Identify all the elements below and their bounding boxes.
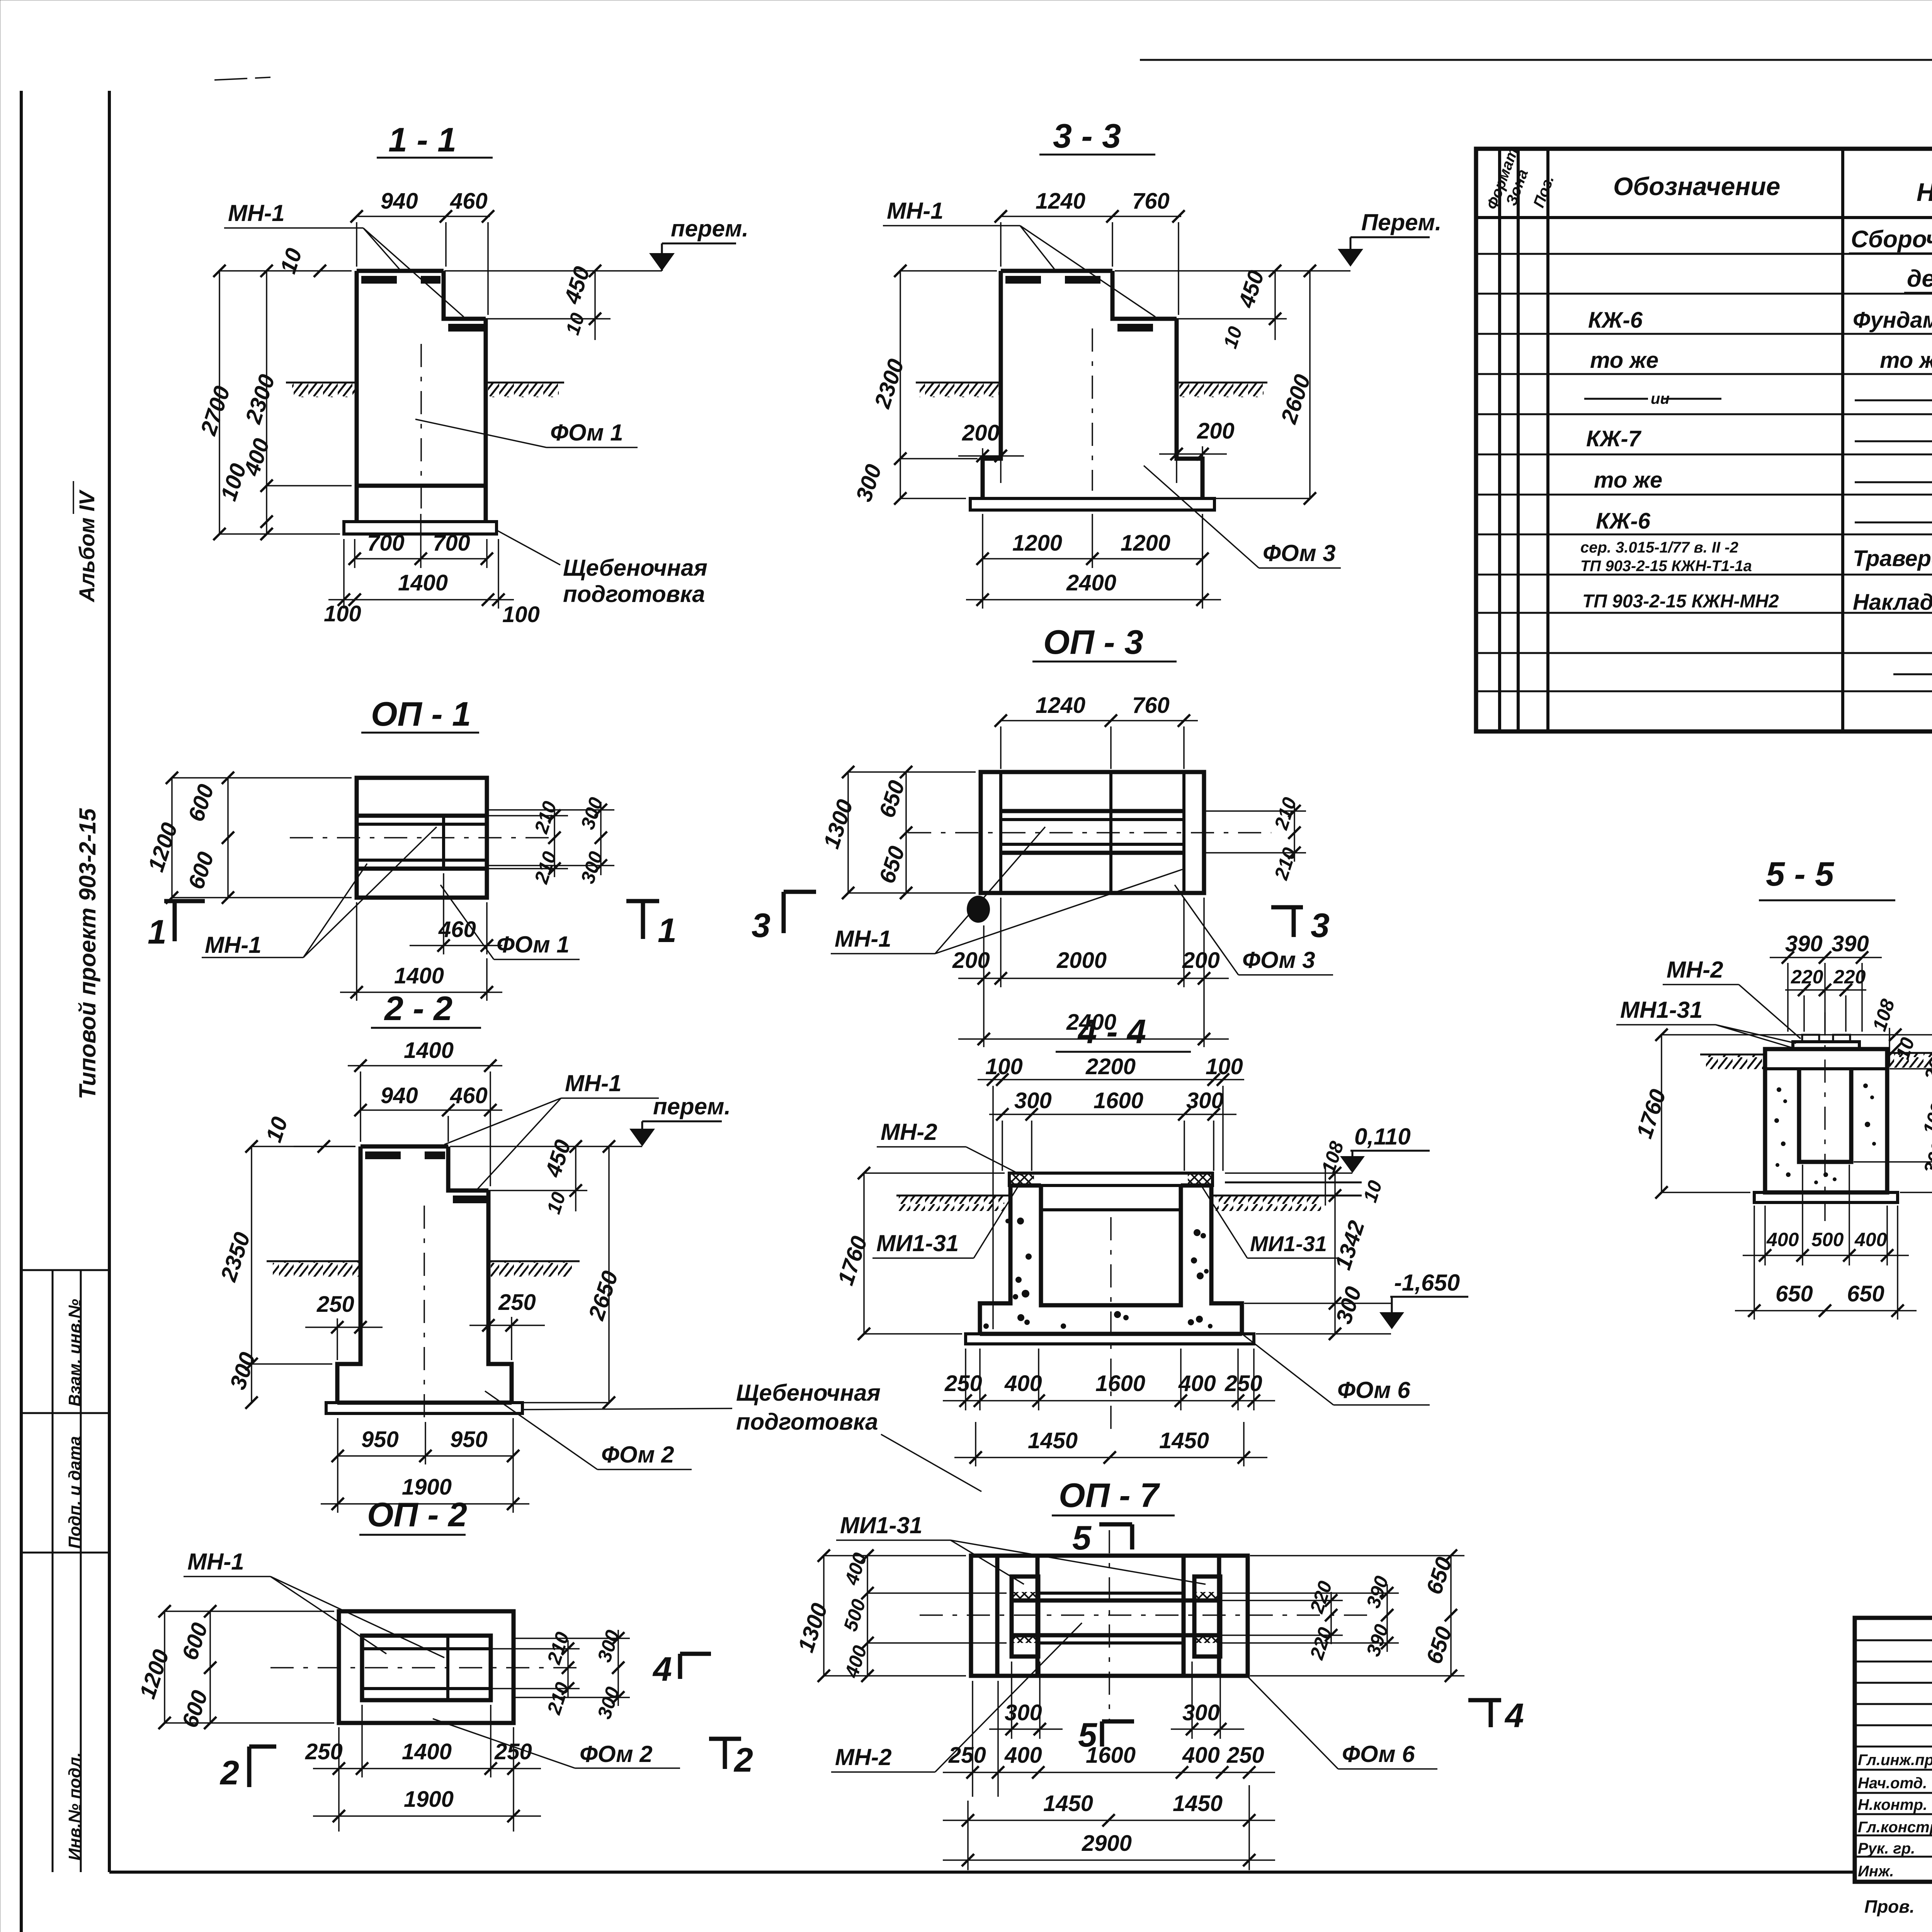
rubble plate bbox=[1754, 1192, 1898, 1202]
svg-text:Обозначение: Обозначение bbox=[1613, 172, 1780, 201]
svg-text:ОП - 7: ОП - 7 bbox=[1059, 1476, 1160, 1514]
U cavity bbox=[1799, 1069, 1851, 1162]
svg-text:1760: 1760 bbox=[1632, 1086, 1671, 1141]
sheet inner left border bbox=[108, 91, 111, 1872]
svg-text:1200: 1200 bbox=[143, 820, 183, 875]
ground left bbox=[267, 1260, 361, 1262]
svg-text:МН-2: МН-2 bbox=[835, 1744, 892, 1770]
svg-text:300: 300 bbox=[577, 795, 607, 832]
svg-text:100: 100 bbox=[985, 1054, 1023, 1079]
svg-text:950: 950 bbox=[361, 1427, 399, 1452]
svg-text:1450: 1450 bbox=[1173, 1791, 1223, 1816]
svg-text:300: 300 bbox=[1919, 1139, 1932, 1177]
svg-text:300: 300 bbox=[577, 849, 607, 886]
top plates bbox=[1802, 1035, 1819, 1042]
rubble plate bbox=[326, 1403, 522, 1413]
svg-text:детали: детали bbox=[1907, 265, 1932, 292]
svg-text:подготовка: подготовка bbox=[736, 1409, 878, 1435]
centerline bbox=[270, 1667, 580, 1668]
svg-text:400: 400 bbox=[1004, 1371, 1042, 1396]
svg-text:МН-2: МН-2 bbox=[881, 1119, 937, 1145]
svg-text:300: 300 bbox=[1182, 1700, 1220, 1725]
svg-text:390: 390 bbox=[1362, 1573, 1393, 1611]
dim 200/2000/200 bbox=[983, 925, 985, 1047]
MN-1 plates bbox=[361, 1145, 448, 1149]
bottom chain 1450/1450 bbox=[967, 1801, 969, 1870]
rubble plate bbox=[966, 1334, 1254, 1344]
svg-text:Инж.: Инж. bbox=[1858, 1863, 1894, 1880]
dim 450/10 right bbox=[488, 1190, 587, 1191]
pads MI1-31 bbox=[1012, 1577, 1038, 1656]
svg-text:ФОм 3: ФОм 3 bbox=[1242, 947, 1315, 973]
svg-text:210: 210 bbox=[543, 1629, 573, 1667]
svg-text:КЖ-6: КЖ-6 bbox=[1596, 509, 1651, 534]
left dim chain 2300/400/100 bbox=[266, 271, 267, 534]
svg-text:МН-1: МН-1 bbox=[835, 926, 891, 952]
svg-text:1 - 1: 1 - 1 bbox=[388, 121, 456, 159]
left dim chain 1200 bbox=[171, 778, 173, 898]
svg-text:400: 400 bbox=[1004, 1743, 1042, 1768]
right dim chain 300/300 bbox=[487, 809, 614, 811]
svg-text:460: 460 bbox=[450, 189, 488, 214]
svg-text:760: 760 bbox=[1132, 189, 1170, 214]
svg-text:200: 200 bbox=[1182, 948, 1220, 973]
svg-text:1450: 1450 bbox=[1028, 1428, 1078, 1453]
bottom chain 650/650 bbox=[1753, 1206, 1755, 1320]
left dim chain 650/650 bbox=[905, 772, 907, 893]
dim 2400 bbox=[958, 1038, 1229, 1040]
center vertical bbox=[1109, 772, 1112, 893]
svg-text:2: 2 bbox=[733, 1741, 753, 1779]
svg-text:210: 210 bbox=[530, 849, 561, 887]
svg-text:Накладной эл-т МН-2: Накладной эл-т МН-2 bbox=[1853, 590, 1932, 615]
svg-text:500: 500 bbox=[1811, 1229, 1844, 1250]
svg-text:ОП - 3: ОП - 3 bbox=[1043, 623, 1143, 661]
centerline bbox=[290, 837, 553, 838]
left chain 1300 bbox=[823, 1556, 825, 1676]
svg-text:Фундамент: Фундамент bbox=[1853, 308, 1932, 333]
level line bbox=[1662, 1034, 1932, 1036]
svg-text:МН-1: МН-1 bbox=[205, 932, 262, 958]
FIGOP7 bbox=[652, 1476, 1524, 1870]
FIG44 bbox=[833, 1012, 1468, 1466]
ground line right bbox=[486, 382, 564, 384]
svg-text:400: 400 bbox=[1182, 1743, 1220, 1768]
svg-text:1092: 1092 bbox=[1918, 1090, 1932, 1137]
bottom inner border bbox=[109, 1871, 1855, 1874]
svg-text:1: 1 bbox=[658, 911, 677, 949]
svg-text:600: 600 bbox=[177, 1687, 213, 1731]
bottom chain 250/400/1600/400/250 bbox=[965, 1349, 966, 1410]
inner verticals bbox=[999, 772, 1002, 893]
svg-text:то же: то же bbox=[1594, 468, 1662, 493]
svg-text:210: 210 bbox=[543, 1680, 573, 1718]
svg-text:2700: 2700 bbox=[196, 383, 235, 439]
spec table grid bbox=[1476, 149, 1932, 731]
svg-text:1400: 1400 bbox=[404, 1038, 454, 1063]
svg-text:300: 300 bbox=[593, 1684, 624, 1722]
svg-text:2: 2 bbox=[219, 1753, 239, 1792]
svg-text:3 - 3: 3 - 3 bbox=[1053, 117, 1121, 155]
svg-text:Пров.: Пров. bbox=[1864, 1896, 1915, 1917]
ground right bbox=[1211, 1195, 1362, 1197]
rubble slab bbox=[344, 522, 497, 534]
inner line 400 bbox=[357, 484, 486, 488]
ground line right bbox=[1177, 382, 1267, 384]
right chain 2650 bbox=[608, 1146, 610, 1403]
right dim chain 2600 bbox=[1309, 271, 1311, 498]
left dim chain 600/600 bbox=[227, 778, 229, 898]
svg-text:10: 10 bbox=[261, 1114, 293, 1145]
stray dashes lower rows bbox=[1893, 673, 1932, 675]
left chain 1760 bbox=[863, 1173, 865, 1334]
svg-text:1900: 1900 bbox=[404, 1787, 454, 1812]
ink blob bbox=[967, 896, 990, 923]
right chain 300/300 bbox=[514, 1638, 630, 1639]
ground line left bbox=[286, 382, 357, 384]
svg-text:250: 250 bbox=[498, 1290, 536, 1315]
svg-text:400: 400 bbox=[840, 1643, 871, 1681]
left chain 1760 bbox=[1661, 1035, 1662, 1192]
svg-text:МН-1: МН-1 bbox=[565, 1070, 622, 1096]
ground left bbox=[1700, 1054, 1765, 1056]
svg-text:сер. 3.015-1/77 в. II -2: сер. 3.015-1/77 в. II -2 bbox=[1580, 539, 1738, 556]
MN-1 beam strips bbox=[357, 814, 487, 818]
svg-text:1450: 1450 bbox=[1159, 1428, 1209, 1453]
svg-text:Ноименование: Ноименование bbox=[1917, 178, 1932, 206]
svg-text:450: 450 bbox=[1233, 267, 1269, 311]
svg-text:Н.контр.: Н.контр. bbox=[1858, 1796, 1927, 1813]
section mark 3 left bbox=[782, 892, 786, 933]
bottom dim 950/950 bbox=[337, 1418, 338, 1513]
FOm2 outline bbox=[337, 1146, 512, 1403]
left dim chain 2300/300 bbox=[900, 271, 901, 498]
svg-text:600: 600 bbox=[177, 1620, 213, 1663]
svg-text:ии: ии bbox=[1651, 390, 1670, 407]
svg-text:МН-2: МН-2 bbox=[1667, 957, 1723, 983]
svg-text:Траверса: Траверса bbox=[1853, 546, 1932, 571]
svg-text:то же: то же bbox=[1590, 348, 1658, 373]
svg-text:Нач.отд.: Нач.отд. bbox=[1858, 1775, 1927, 1792]
svg-text:-1,650: -1,650 bbox=[1394, 1270, 1460, 1296]
svg-text:390: 390 bbox=[1362, 1622, 1393, 1659]
svg-text:250: 250 bbox=[1226, 1743, 1264, 1768]
ground left bbox=[896, 1195, 1010, 1197]
svg-text:1450: 1450 bbox=[1043, 1791, 1093, 1816]
base slab bbox=[983, 486, 1202, 498]
rubble plate bbox=[970, 498, 1214, 510]
svg-text:1: 1 bbox=[148, 913, 167, 951]
section mark 3 right bbox=[1271, 905, 1303, 910]
svg-text:ФОм 1: ФОм 1 bbox=[497, 932, 570, 957]
top dim 1240/760 bbox=[1001, 216, 1181, 217]
svg-text:220: 220 bbox=[1833, 966, 1866, 988]
svg-text:108: 108 bbox=[1868, 997, 1899, 1034]
FIG33 bbox=[851, 117, 1442, 609]
MN-1 plate top right bbox=[448, 324, 485, 332]
right chain 210/210 bbox=[491, 1648, 580, 1650]
inner vertical 940 split bbox=[446, 1636, 449, 1700]
FIGOP3 bbox=[752, 623, 1333, 1047]
beam MN-2 edges bbox=[1038, 1592, 1184, 1595]
svg-text:460: 460 bbox=[438, 917, 476, 942]
svg-text:940: 940 bbox=[381, 189, 418, 214]
svg-text:650: 650 bbox=[874, 843, 910, 886]
section mark 1 right bbox=[626, 899, 659, 903]
svg-text:ОП - 2: ОП - 2 bbox=[367, 1495, 467, 1534]
MN-2 top plate bbox=[1009, 1173, 1213, 1185]
svg-text:400: 400 bbox=[1766, 1229, 1799, 1250]
svg-text:10: 10 bbox=[1219, 324, 1247, 351]
svg-text:Типовой проект 903-2-15: Типовой проект 903-2-15 bbox=[75, 808, 100, 1099]
svg-text:4: 4 bbox=[1504, 1696, 1524, 1735]
TABLE bbox=[1476, 145, 1932, 731]
svg-text:210: 210 bbox=[530, 799, 561, 837]
svg-text:ФОм 6: ФОм 6 bbox=[1337, 1377, 1410, 1403]
svg-text:300: 300 bbox=[1014, 1088, 1052, 1113]
MI1-31 pad right bbox=[1188, 1174, 1212, 1185]
right chain 1342/300 bbox=[1334, 1173, 1336, 1334]
svg-text:0,110: 0,110 bbox=[1354, 1124, 1411, 1150]
ground right bbox=[488, 1260, 580, 1262]
svg-text:1400: 1400 bbox=[402, 1739, 452, 1764]
centerlines bbox=[920, 1614, 1376, 1616]
svg-text:2300: 2300 bbox=[869, 356, 909, 412]
left chain 600/600 bbox=[209, 1611, 211, 1723]
svg-text:1200: 1200 bbox=[135, 1646, 174, 1702]
foundation FOm1 outline bbox=[357, 271, 486, 522]
svg-text:10: 10 bbox=[1359, 1178, 1386, 1205]
svg-text:3: 3 bbox=[752, 906, 770, 944]
centerline bbox=[1110, 1217, 1112, 1430]
svg-text:1342: 1342 bbox=[1330, 1218, 1370, 1273]
svg-text:ОП - 1: ОП - 1 bbox=[371, 695, 471, 733]
ground line left bbox=[916, 382, 1001, 384]
svg-text:100: 100 bbox=[1206, 1054, 1243, 1079]
svg-text:1240: 1240 bbox=[1036, 693, 1085, 718]
svg-text:250: 250 bbox=[944, 1371, 982, 1396]
svg-text:100: 100 bbox=[324, 601, 361, 626]
svg-text:460: 460 bbox=[450, 1083, 488, 1108]
MN-1 plate top left bbox=[357, 269, 444, 273]
svg-text:2650: 2650 bbox=[583, 1268, 623, 1323]
svg-text:Инв.№ подл.: Инв.№ подл. bbox=[65, 1752, 84, 1861]
svg-text:1240: 1240 bbox=[1036, 189, 1085, 214]
inner rect bbox=[362, 1636, 491, 1700]
svg-text:210: 210 bbox=[1270, 845, 1301, 883]
svg-text:Поз.: Поз. bbox=[1530, 173, 1557, 210]
svg-text:1600: 1600 bbox=[1094, 1088, 1143, 1113]
svg-text:Перем.: Перем. bbox=[1361, 209, 1442, 235]
FIG55 bbox=[1616, 855, 1932, 1320]
svg-text:1400: 1400 bbox=[398, 570, 448, 595]
bottom dim 100/1400/100 bbox=[343, 539, 345, 609]
FOm2 plan outer bbox=[339, 1611, 514, 1723]
svg-text:ТП 903-2-15 КЖН-МН2: ТП 903-2-15 КЖН-МН2 bbox=[1582, 591, 1779, 612]
svg-text:МН-1: МН-1 bbox=[187, 1549, 244, 1575]
svg-text:500: 500 bbox=[839, 1597, 870, 1634]
svg-text:210: 210 bbox=[1270, 795, 1301, 833]
svg-text:ТП 903-2-15 КЖН-Т1-1а: ТП 903-2-15 КЖН-Т1-1а bbox=[1580, 558, 1752, 575]
svg-text:2200: 2200 bbox=[1085, 1054, 1136, 1079]
svg-text:250: 250 bbox=[948, 1743, 986, 1768]
title block frame bbox=[1855, 1618, 1932, 1882]
svg-text:950: 950 bbox=[450, 1427, 488, 1452]
svg-text:МИ1-31: МИ1-31 bbox=[876, 1230, 959, 1256]
svg-text:перем.: перем. bbox=[671, 216, 748, 241]
svg-text:200: 200 bbox=[952, 948, 990, 973]
svg-text:450: 450 bbox=[559, 264, 595, 307]
svg-text:3: 3 bbox=[1311, 906, 1330, 944]
dim 300 below pads bbox=[1011, 1662, 1012, 1739]
bottom dim 700/700 bbox=[354, 539, 355, 568]
right dim chain 210/210 bbox=[487, 815, 568, 816]
svg-text:450: 450 bbox=[540, 1137, 576, 1180]
svg-text:2 - 2: 2 - 2 bbox=[384, 989, 452, 1027]
centerline bbox=[1824, 1012, 1826, 1221]
foundation FOm3 outline bbox=[983, 271, 1202, 486]
svg-text:10: 10 bbox=[276, 245, 307, 277]
svg-text:2300: 2300 bbox=[240, 371, 280, 427]
svg-text:10: 10 bbox=[561, 310, 589, 337]
svg-text:700: 700 bbox=[367, 531, 405, 556]
svg-text:2400: 2400 bbox=[1066, 570, 1116, 595]
margin bottom table bbox=[21, 1269, 109, 1271]
bottom dim 2400 bbox=[966, 599, 1221, 600]
left dim chain 2700 bbox=[219, 271, 220, 534]
svg-text:1600: 1600 bbox=[1095, 1371, 1145, 1396]
svg-text:1760: 1760 bbox=[833, 1233, 872, 1288]
FOm4 block outline bbox=[1765, 1049, 1887, 1192]
inner verticals bbox=[995, 1556, 1000, 1676]
section mark 2 right bbox=[709, 1737, 741, 1741]
centerline bbox=[423, 1206, 425, 1422]
bottom dim 1900 bbox=[313, 1815, 541, 1817]
bottom dim 1900 bbox=[321, 1503, 529, 1505]
svg-text:Альбом IV: Альбом IV bbox=[75, 489, 99, 603]
svg-text:1300: 1300 bbox=[819, 796, 858, 852]
row: ditto FOm3 bbox=[1584, 398, 1648, 400]
svg-text:Щебеночная: Щебеночная bbox=[563, 555, 707, 581]
dim 450 right bbox=[486, 318, 611, 320]
FIG11 bbox=[196, 121, 748, 627]
svg-text:400: 400 bbox=[1178, 1371, 1216, 1396]
right chain 220/220 bbox=[1221, 1600, 1343, 1601]
section mark 4 left bbox=[678, 1654, 682, 1679]
FOm3 plan outline bbox=[981, 772, 1204, 893]
svg-text:700: 700 bbox=[433, 531, 470, 556]
svg-text:300: 300 bbox=[1005, 1700, 1042, 1725]
FIGOP1 bbox=[143, 695, 677, 1001]
svg-text:5: 5 bbox=[1072, 1519, 1092, 1557]
centerline bbox=[1092, 328, 1093, 491]
svg-text:МН-1: МН-1 bbox=[887, 198, 944, 224]
svg-text:2000: 2000 bbox=[1056, 948, 1107, 973]
top band bbox=[1765, 1067, 1887, 1070]
right chain 650/650 bbox=[1250, 1555, 1464, 1556]
svg-text:300: 300 bbox=[1331, 1284, 1367, 1327]
left chain 400/500/400 bbox=[867, 1556, 868, 1676]
MN-1 plate top left bbox=[1001, 269, 1112, 273]
svg-text:МН-1: МН-1 bbox=[228, 200, 285, 226]
svg-text:КЖ-7: КЖ-7 bbox=[1586, 426, 1642, 451]
svg-text:МН1-31: МН1-31 bbox=[1620, 997, 1702, 1023]
svg-text:то же: то же bbox=[1880, 348, 1932, 373]
svg-text:650: 650 bbox=[1776, 1281, 1813, 1306]
svg-text:650: 650 bbox=[874, 777, 910, 821]
svg-text:1200: 1200 bbox=[1012, 531, 1062, 556]
svg-text:ФОм 6: ФОм 6 bbox=[1342, 1741, 1415, 1767]
svg-text:108: 108 bbox=[1317, 1139, 1348, 1176]
svg-text:Сборочные единицы и: Сборочные единицы и bbox=[1851, 226, 1932, 253]
left chain 1200 bbox=[164, 1611, 165, 1723]
svg-text:ФОм 2: ФОм 2 bbox=[601, 1442, 674, 1468]
FOm6 plan outer bbox=[971, 1556, 1248, 1676]
ground right bbox=[1887, 1052, 1932, 1054]
inner vertical 940 split bbox=[442, 816, 445, 869]
svg-text:Гл.констр: Гл.констр bbox=[1858, 1819, 1932, 1836]
bottom chain 400/500/400 bbox=[1764, 1206, 1766, 1265]
FIGOP2 bbox=[135, 1495, 753, 1832]
svg-text:КЖ-6: КЖ-6 bbox=[1588, 308, 1643, 333]
MN-1 plate top right bbox=[1117, 324, 1175, 332]
svg-text:400: 400 bbox=[1854, 1229, 1887, 1250]
column centerline bbox=[420, 344, 422, 514]
svg-text:ФОм 2: ФОм 2 bbox=[580, 1741, 653, 1767]
svg-text:10: 10 bbox=[543, 1189, 570, 1216]
svg-text:100: 100 bbox=[502, 602, 540, 627]
svg-text:4: 4 bbox=[652, 1650, 672, 1688]
signature grid horizontals bbox=[1855, 1639, 1932, 1641]
left dim chain 1300 bbox=[847, 772, 849, 893]
svg-text:1600: 1600 bbox=[1086, 1743, 1136, 1768]
svg-text:390: 390 bbox=[1832, 931, 1869, 956]
section mark 1 left bbox=[164, 899, 205, 903]
svg-text:1400: 1400 bbox=[394, 963, 444, 988]
svg-text:940: 940 bbox=[381, 1083, 418, 1108]
right dim chain 210/210 bbox=[1204, 810, 1306, 812]
base bottom bbox=[337, 1401, 512, 1405]
bottom chain 1450/1450 bbox=[975, 1422, 976, 1466]
dim 450 right bbox=[1177, 318, 1287, 320]
svg-text:Гл.инж.пр: Гл.инж.пр bbox=[1858, 1752, 1932, 1769]
svg-text:650: 650 bbox=[1847, 1281, 1884, 1306]
svg-text:1300: 1300 bbox=[793, 1600, 833, 1655]
svg-text:2350: 2350 bbox=[216, 1229, 255, 1285]
centerline bbox=[908, 832, 1271, 833]
section mark 2 left bbox=[247, 1747, 252, 1787]
bottom chain 2900 bbox=[943, 1859, 1275, 1861]
svg-text:200: 200 bbox=[1197, 418, 1235, 444]
svg-text:МИ1-31: МИ1-31 bbox=[1250, 1231, 1327, 1256]
top-left stray dashes bbox=[214, 78, 247, 80]
sheet outer left border bbox=[20, 91, 23, 1932]
FIG22 bbox=[216, 989, 981, 1513]
bottom dim 1200/1200 bbox=[982, 514, 983, 609]
top border line bbox=[1140, 59, 1932, 61]
svg-text:760: 760 bbox=[1132, 693, 1170, 718]
svg-text:250: 250 bbox=[316, 1292, 354, 1317]
svg-text:250: 250 bbox=[1225, 1371, 1262, 1396]
svg-text:2900: 2900 bbox=[1082, 1831, 1132, 1856]
left chain 2350 bbox=[251, 1146, 252, 1403]
svg-text:600: 600 bbox=[184, 781, 219, 825]
top dim 940/460 bbox=[357, 216, 490, 217]
svg-text:300: 300 bbox=[593, 1628, 624, 1665]
bottom chain 250/400/1600/400/250 bbox=[972, 1681, 973, 1797]
svg-text:Подп. и дата: Подп. и дата bbox=[65, 1436, 84, 1549]
svg-text:Взам. инв.№: Взам. инв.№ bbox=[65, 1299, 84, 1406]
